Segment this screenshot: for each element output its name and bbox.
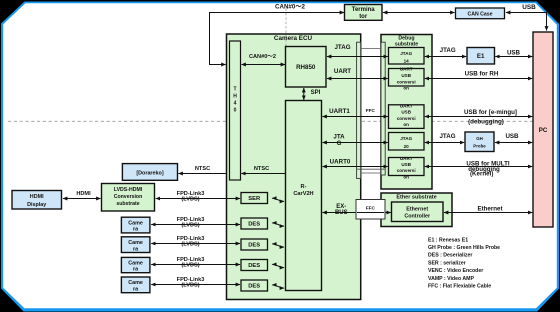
dashed link CAN#0~2 label to RH850 [285, 9, 287, 47]
dashed divider line [8, 120, 552, 122]
svg-text:on: on [403, 86, 409, 91]
wire USBconv1 to PC [425, 78, 533, 80]
svg-text:VAMP : Video AMP: VAMP : Video AMP [428, 276, 474, 282]
label kernel [470, 170, 493, 177]
svg-text:Ethernet: Ethernet [406, 206, 428, 212]
block USB conversion 2 [389, 105, 425, 129]
label Camera1 line1 [128, 220, 143, 226]
label Ethernet Controller line1 [406, 206, 428, 212]
svg-text:JTAG: JTAG [400, 51, 412, 56]
label CAN#0~2 top [275, 4, 305, 11]
label DES1 [248, 222, 260, 228]
wire CAN Case to PC (USB) [506, 13, 547, 31]
svg-text:Camera ECU: Camera ECU [274, 35, 313, 42]
block LVDS-HDMI Conversion substrate [102, 184, 155, 212]
label CAN Case [467, 11, 492, 17]
svg-text:HDMI: HDMI [76, 191, 91, 197]
label USBconv2 line2 [401, 110, 411, 115]
svg-text:Conversion: Conversion [114, 194, 143, 200]
connector strip Debug substrate edge [381, 42, 385, 175]
svg-text:NTSC: NTSC [254, 166, 269, 172]
label DES4 [248, 284, 260, 290]
svg-text:UART1: UART1 [329, 108, 350, 115]
wire GH Probe to PC [495, 142, 532, 144]
svg-text:DES: DES [248, 243, 260, 249]
block R-CarV2H [286, 101, 322, 291]
block SER [241, 193, 268, 204]
label debugging kernel1 [468, 166, 500, 173]
block GH Probe [465, 132, 494, 152]
svg-text:USB: USB [505, 133, 519, 140]
wire Ethernet to PC [444, 212, 532, 214]
block Debug substrate [381, 35, 432, 190]
label JTAG row4 line2 [337, 140, 342, 147]
svg-text:USB for RH: USB for RH [465, 71, 499, 78]
label LVDS row0 [181, 197, 199, 203]
svg-text:Came: Came [128, 280, 143, 286]
svg-text:(LVDS): (LVDS) [181, 263, 199, 269]
wire FPD-Link3 camera row3 [151, 264, 240, 266]
block Camera ECU [227, 34, 361, 300]
legend line 1 [428, 237, 468, 243]
label UART1 row3 [329, 108, 350, 115]
svg-text:FFC : Flat Flexiable Cable: FFC : Flat Flexiable Cable [428, 284, 491, 290]
label Camera3 line2 [133, 267, 139, 273]
label JTAG14 line2 [404, 58, 410, 63]
svg-text:on: on [403, 122, 409, 127]
svg-text:FFC: FFC [366, 205, 376, 210]
wire FPD-Link3 camera row4 [151, 284, 240, 286]
label Camera ECU title [274, 35, 313, 42]
legend line 3 [428, 253, 472, 259]
block Camera3 [121, 257, 149, 272]
block RH850 [286, 47, 327, 88]
svg-text:DES: DES [248, 284, 260, 290]
wire FPD-Link3 camera row2 [151, 243, 240, 245]
svg-text:substrate: substrate [116, 201, 139, 207]
svg-text:CAN Case: CAN Case [467, 11, 492, 17]
label USBconv3 line1 [400, 156, 413, 161]
wire JTAG RH850 to JTAG14 [327, 56, 388, 58]
block DES4 [241, 280, 268, 291]
svg-text:Ether substrate: Ether substrate [396, 195, 436, 201]
wire EX-BUS to Ethernet Controller [323, 212, 391, 214]
block DES2 [241, 239, 268, 250]
label HDMI Display line2 [27, 202, 46, 208]
legend line 6 [428, 276, 474, 282]
svg-text:DES: DES [248, 222, 260, 228]
wire CAN#0~2 TH40 to RH850 [242, 64, 286, 66]
svg-text:UART0: UART0 [330, 159, 351, 166]
link DES4 to R-CarV2H [272, 285, 284, 288]
svg-text:H: H [233, 94, 237, 100]
wire E1 to PC [495, 56, 532, 58]
label USB E1 [507, 49, 521, 56]
block E1 [467, 48, 495, 65]
label USB top right [522, 4, 536, 11]
label LVDS-HDMI line2 [114, 194, 143, 200]
label USBconv3 line4 [403, 174, 409, 179]
svg-text:UART: UART [400, 103, 413, 108]
label Camera2 line2 [133, 246, 139, 252]
wire SPI [303, 88, 305, 100]
legend line 4 [428, 260, 466, 266]
svg-text:Display: Display [27, 202, 46, 208]
label Debug substrate title1 [398, 35, 414, 41]
label USB for MULTI [466, 161, 509, 168]
label HDMI Display line1 [30, 194, 44, 200]
svg-text:(LVDS): (LVDS) [181, 242, 199, 248]
label Ether substrate title [396, 195, 436, 201]
wire UART RH850 to USBconv1 [327, 78, 388, 80]
block HDMI Display [12, 191, 62, 210]
block DES3 [241, 260, 268, 271]
label Camera1 line2 [133, 227, 139, 233]
svg-text:DES : Deserializer: DES : Deserializer [428, 253, 472, 259]
svg-text:tor: tor [359, 14, 368, 20]
label R-CarV2H line1 [301, 184, 307, 190]
block FFC connector [356, 200, 385, 220]
wire FPD-Link3 camera row1 [151, 224, 240, 226]
svg-text:LVDS-HDMI: LVDS-HDMI [114, 187, 143, 193]
connector strip Camera ECU edge [357, 42, 361, 178]
svg-text:USB: USB [401, 162, 411, 167]
label LVDS-HDMI line3 [116, 201, 139, 207]
wire JTAG to JTAG20 [323, 142, 388, 144]
label R-CarV2H line2 [293, 191, 313, 197]
label LVDS-HDMI line1 [114, 187, 143, 193]
label debugging [468, 119, 504, 126]
svg-text:conversi: conversi [397, 116, 416, 121]
legend line 5 [428, 268, 483, 274]
svg-text:SER: SER [248, 196, 261, 202]
wire UART0 to USBconv3 [323, 166, 388, 168]
label USBconv2 line4 [403, 122, 409, 127]
svg-text:14: 14 [404, 58, 410, 63]
label USB for RH [465, 71, 499, 78]
label Debug substrate title2 [395, 41, 418, 47]
svg-text:(debugging): (debugging) [468, 119, 504, 126]
label PC [539, 127, 548, 134]
label USBconv2 line1 [400, 103, 413, 108]
label Camera4 line2 [133, 286, 139, 292]
FFC ribbon line bottom b [361, 172, 382, 174]
label CAN#0~2 internal [249, 54, 276, 60]
block JTAG20 [389, 133, 425, 151]
svg-text:JTAG: JTAG [334, 44, 350, 51]
svg-text:HDMI: HDMI [30, 194, 44, 200]
label JTAG row4 line1 [333, 133, 345, 140]
label LVDS row4 [181, 283, 199, 289]
svg-text:substrate: substrate [395, 41, 418, 47]
block CAN Case [456, 8, 505, 19]
label USBconv3 line2 [401, 162, 411, 167]
wire USBconv2 to PC [425, 116, 533, 118]
label TH40 0 [234, 108, 237, 114]
label DES3 [248, 263, 260, 269]
link SER to R-CarV2H [272, 198, 284, 201]
svg-text:NTSC: NTSC [195, 166, 210, 172]
svg-text:USB: USB [401, 73, 411, 78]
wire NTSC ECU to Dorareko [179, 173, 227, 175]
svg-text:JTAG: JTAG [440, 47, 456, 54]
svg-text:Came: Came [128, 240, 143, 246]
svg-text:G: G [337, 140, 342, 147]
label Terminator line1 [352, 7, 376, 13]
label EX-BUS line1 [336, 204, 346, 210]
label USBconv2 line3 [397, 116, 416, 121]
label UART row2 [334, 68, 351, 75]
label FPD-Link3 row4 [177, 277, 205, 283]
block USB conversion 1 [389, 69, 425, 87]
label GH Probe line1 [476, 136, 483, 141]
svg-text:R-: R- [301, 184, 307, 190]
svg-text:UART: UART [400, 156, 413, 161]
svg-text:on: on [403, 174, 409, 179]
label GH Probe line2 [473, 144, 486, 149]
svg-text:conversi: conversi [397, 79, 416, 84]
wire USBconv3 to PC [425, 166, 533, 168]
svg-text:USB for [e-mingu]: USB for [e-mingu] [464, 109, 517, 116]
svg-text:(LVDS): (LVDS) [181, 223, 199, 229]
label JTAG to E1 [440, 47, 456, 54]
svg-text:Ethernet: Ethernet [477, 205, 502, 212]
wire UART1 to USBconv2 [323, 116, 388, 118]
label FPD-Link3 row3 [177, 257, 205, 263]
label USB for e-mingu [464, 109, 517, 116]
svg-text:4: 4 [234, 101, 237, 107]
svg-text:UART: UART [400, 67, 413, 72]
label Ethernet Controller line2 [404, 213, 431, 219]
wire CAN bus to Terminator and Camera ECU [210, 13, 345, 65]
svg-text:EX-: EX- [336, 204, 346, 210]
label FFC exbus [366, 205, 376, 210]
block PC [533, 32, 553, 227]
legend line 7 [428, 284, 491, 290]
svg-text:(LVDS): (LVDS) [181, 197, 199, 203]
label TH40 H [233, 94, 237, 100]
label E1 [477, 53, 485, 60]
label Dorareko [136, 170, 163, 176]
label JTAG14 line1 [400, 51, 412, 56]
svg-text:RH850: RH850 [296, 64, 316, 71]
label NTSC external [195, 166, 210, 172]
svg-text:GH Probe : Green Hills Probe: GH Probe : Green Hills Probe [428, 245, 500, 251]
link DES1 to R-CarV2H [272, 223, 284, 226]
svg-text:USB: USB [522, 4, 536, 11]
label LVDS row3 [181, 263, 199, 269]
svg-text:CarV2H: CarV2H [293, 191, 313, 197]
svg-text:JTAG: JTAG [400, 136, 412, 141]
label HDMI [76, 191, 91, 197]
wire Terminator to CAN Case [383, 12, 455, 14]
block USB conversion 3 [389, 158, 425, 176]
label NTSC internal [254, 166, 269, 172]
label FFC row3 [366, 108, 376, 113]
svg-text:Came: Came [128, 260, 143, 266]
svg-text:VENC : Video Encoder: VENC : Video Encoder [428, 268, 483, 274]
label JTAG20 line1 [400, 136, 412, 141]
svg-text:GH: GH [476, 136, 483, 141]
svg-text:[Dorareko]: [Dorareko] [136, 170, 163, 176]
block Terminator [345, 5, 383, 21]
label JTAG row1 [334, 44, 350, 51]
wire JTAG14 to E1 [425, 56, 466, 58]
svg-text:USB: USB [401, 110, 411, 115]
svg-text:Controller: Controller [404, 213, 431, 219]
svg-text:FFC: FFC [366, 108, 376, 113]
label TH40 T [233, 87, 236, 93]
label DES2 [248, 243, 260, 249]
svg-text:T: T [233, 87, 236, 93]
label Terminator line2 [359, 14, 368, 20]
FFC ribbon line top [361, 48, 382, 50]
block Camera4 [121, 277, 149, 293]
svg-text:(Kernel): (Kernel) [470, 170, 493, 177]
svg-text:JTAG: JTAG [439, 133, 455, 140]
link DES2 to R-CarV2H [272, 244, 284, 247]
block Camera1 [121, 217, 149, 233]
label USBconv1 line2 [401, 73, 411, 78]
svg-text:UART: UART [334, 68, 351, 75]
label USBconv1 line1 [400, 67, 413, 72]
block Dorareko [122, 164, 177, 181]
label USBconv3 line3 [397, 168, 416, 173]
block Camera2 [121, 237, 149, 253]
block DES1 [241, 218, 268, 229]
svg-text:(LVDS): (LVDS) [181, 283, 199, 289]
label EX-BUS line2 [335, 210, 348, 216]
label Camera3 line1 [128, 260, 143, 266]
label LVDS row1 [181, 223, 199, 229]
label Camera4 line1 [128, 280, 143, 286]
svg-text:Termina: Termina [352, 7, 376, 13]
svg-text:CAN#0〜2: CAN#0〜2 [275, 4, 305, 11]
svg-text:conversi: conversi [397, 168, 416, 173]
label RH850 [296, 64, 316, 71]
wire EX-BUS through FFC overlay [357, 212, 384, 214]
block JTAG14 [389, 48, 425, 65]
label USBconv1 line3 [397, 79, 416, 84]
svg-text:Came: Came [128, 220, 143, 226]
svg-text:DES: DES [248, 263, 260, 269]
label SPI [311, 90, 321, 96]
label JTAG20 line2 [404, 144, 410, 149]
label Ethernet [477, 205, 502, 212]
svg-text:SER : serializer: SER : serializer [428, 260, 466, 266]
label JTAG to GH Probe [439, 133, 455, 140]
FFC ribbon line bottom a [357, 168, 386, 170]
svg-text:E1: E1 [477, 53, 485, 60]
label Camera2 line1 [128, 240, 143, 246]
legend line 2 [428, 245, 500, 251]
svg-text:SPI: SPI [311, 90, 321, 96]
svg-text:USB: USB [507, 49, 521, 56]
svg-text:0: 0 [234, 108, 237, 114]
wire NTSC R-CarV2H to TH40 [241, 173, 285, 175]
label TH40 4 [234, 101, 237, 107]
block Ethernet Controller [392, 202, 444, 222]
svg-text:E1 : Renesas E1: E1 : Renesas E1 [428, 237, 468, 243]
label FPD-Link3 row2 [177, 236, 205, 242]
svg-text:20: 20 [404, 144, 410, 149]
block Ether substrate [381, 193, 452, 227]
svg-text:Probe: Probe [473, 144, 486, 149]
svg-text:CAN#0〜2: CAN#0〜2 [249, 54, 276, 60]
label FPD-Link3 row0 [177, 191, 205, 197]
svg-text:PC: PC [539, 127, 548, 134]
label UART0 row5 [330, 159, 351, 166]
label USB GH [505, 133, 519, 140]
wire JTAG20 to GH Probe [425, 142, 464, 144]
label SER [248, 196, 261, 202]
link DES3 to R-CarV2H [272, 264, 284, 267]
label FPD-Link3 row1 [177, 217, 205, 223]
block TH40 [230, 41, 241, 180]
label USBconv1 line4 [403, 86, 409, 91]
wire FPD-Link3 SER row [156, 198, 240, 200]
wire HDMI [63, 198, 101, 200]
label LVDS row2 [181, 242, 199, 248]
